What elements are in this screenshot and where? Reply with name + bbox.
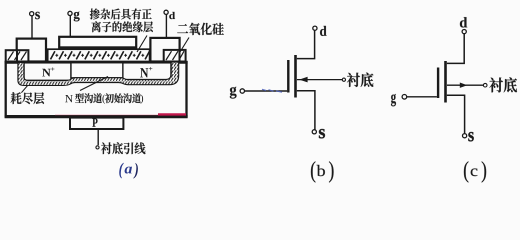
label (b) lparen xyxy=(311,161,315,182)
label insulating-layer line1 xyxy=(90,8,152,19)
symbol (c) terminal s xyxy=(463,134,467,138)
label (c) rparen xyxy=(482,161,486,182)
symbol (b) terminal s xyxy=(312,130,316,134)
label (b) rparen xyxy=(329,161,333,182)
channel label N xyxy=(65,95,73,102)
label N+ right sup xyxy=(149,67,152,70)
depletion layer hatched band xyxy=(18,62,179,86)
source metal contact xyxy=(17,39,46,62)
annotation line to channel xyxy=(80,77,108,91)
label N+ right xyxy=(140,68,148,77)
channel label cjk1 xyxy=(75,93,102,103)
symbol (b) label d glyph xyxy=(320,26,327,36)
silicon dioxide block right xyxy=(164,50,186,62)
symbol (b) channel bar xyxy=(294,55,297,98)
silicon dioxide block left xyxy=(6,50,29,61)
symbol (b) terminal d xyxy=(313,26,317,30)
symbol (b) terminal g xyxy=(240,89,244,93)
label (a) a xyxy=(125,167,132,174)
substrate lead wire xyxy=(97,129,99,145)
symbol (b) wire g xyxy=(244,90,287,92)
label silicon-dioxide xyxy=(177,23,224,35)
label s xyxy=(35,12,40,19)
wire d xyxy=(165,14,167,38)
P substrate contact box xyxy=(70,118,123,129)
body top edge (thick) xyxy=(5,61,188,64)
gate metal bar xyxy=(59,37,136,48)
symbol (b) label s glyph xyxy=(319,129,325,138)
channel label rparen xyxy=(141,94,144,104)
label (c) lparen xyxy=(464,161,468,182)
wire s xyxy=(31,16,33,39)
symbol (b) substrate terminal xyxy=(342,78,345,81)
terminal g xyxy=(68,11,72,15)
gate oxide strip with positive ions xyxy=(48,49,150,61)
symbol (c) substrate terminal xyxy=(483,83,487,87)
symbol (c) terminal g xyxy=(402,95,407,100)
label (b) b xyxy=(317,165,325,176)
substrate lead terminal xyxy=(96,146,99,149)
P-substrate body outline xyxy=(6,62,187,117)
symbol (b) source stub xyxy=(297,91,315,130)
symbol (c) substrate wire xyxy=(447,84,483,86)
N+ source region xyxy=(24,63,71,81)
symbol (c) label d glyph xyxy=(460,17,467,27)
annotation line to depletion layer xyxy=(21,85,28,93)
source contact edge over oxide xyxy=(16,50,18,61)
annotation line to SiO2 right xyxy=(180,38,189,53)
channel label lparen xyxy=(102,94,105,104)
label (a) lparen xyxy=(119,163,123,179)
symbol (c) substrate arrow xyxy=(460,83,468,88)
label insulating-layer line2 xyxy=(91,21,153,32)
symbol (b) substrate wire xyxy=(297,79,342,81)
MOSFET symbol (c) gate bar xyxy=(437,68,439,99)
label g xyxy=(74,11,80,21)
label d xyxy=(169,12,175,19)
label depletion-layer xyxy=(11,92,45,104)
symbol (b) substrate arrow xyxy=(299,77,307,83)
label P xyxy=(92,118,97,126)
channel label cjk2 xyxy=(105,93,141,103)
drain contact edge over oxide xyxy=(179,50,181,62)
annotation line to oxide strip xyxy=(137,36,147,53)
MOSFET symbol (b) gate bar xyxy=(287,60,289,93)
drain metal contact xyxy=(150,38,179,62)
label (c) c xyxy=(471,168,478,176)
symbol (c) channel bar xyxy=(444,61,447,103)
symbol (c) label s glyph xyxy=(468,132,473,141)
terminal d xyxy=(164,10,168,14)
body bottom edge (thick) xyxy=(5,115,188,118)
symbol (c) drain stub xyxy=(447,34,464,64)
terminal s xyxy=(30,12,34,16)
label (a) rparen xyxy=(133,163,137,179)
label N+ left sup xyxy=(51,67,54,70)
symbol (c) source stub xyxy=(447,95,465,133)
N channel strip xyxy=(71,63,123,78)
symbol (b) label g glyph xyxy=(230,87,237,99)
symbol (b) substrate label xyxy=(347,73,373,87)
red annotation line along body bottom xyxy=(55,114,158,116)
wire g xyxy=(69,15,71,36)
N+ drain region xyxy=(123,63,171,80)
symbol (c) terminal d xyxy=(462,30,466,34)
blue ink smudge on g wire xyxy=(262,89,282,92)
label N+ left xyxy=(42,69,50,77)
symbol (b) drain stub xyxy=(297,30,315,58)
label substrate-lead xyxy=(101,142,145,154)
symbol (c) wire g xyxy=(407,96,437,98)
symbol (c) label g glyph xyxy=(391,94,396,106)
symbol (c) substrate label xyxy=(489,77,517,92)
